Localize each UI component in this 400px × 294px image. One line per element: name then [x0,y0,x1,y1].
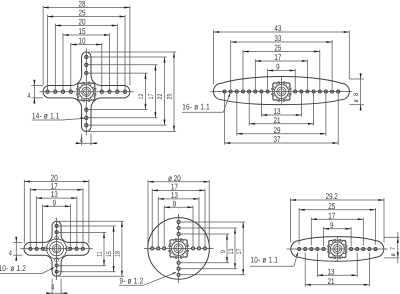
svg-text:22: 22 [157,93,164,99]
svg-text:37: 37 [273,134,280,144]
svg-text:20: 20 [78,17,85,27]
svg-text:16- ø 1.1: 16- ø 1.1 [182,101,210,111]
svg-text:21: 21 [327,276,334,286]
svg-text:17: 17 [148,93,155,99]
svg-text:17: 17 [274,52,281,62]
svg-text:13: 13 [327,266,334,276]
svg-text:21: 21 [273,115,280,125]
svg-text:ø 8: ø 8 [353,92,360,103]
svg-text:9: 9 [173,198,177,208]
svg-text:43: 43 [274,23,281,33]
svg-text:4: 4 [80,136,83,145]
svg-text:33: 33 [274,33,281,43]
svg-text:17: 17 [236,248,243,254]
svg-text:10: 10 [78,36,85,46]
svg-text:25: 25 [167,93,174,99]
svg-text:4: 4 [27,91,30,100]
svg-text:15: 15 [106,251,113,257]
svg-text:9- ø 1.2: 9- ø 1.2 [120,275,144,285]
svg-text:14- ø 1.1: 14- ø 1.1 [32,110,60,120]
svg-text:25: 25 [328,201,335,211]
svg-text:10- ø 1.1: 10- ø 1.1 [251,254,279,264]
svg-text:4: 4 [9,249,12,258]
svg-text:25: 25 [274,43,281,53]
svg-text:18: 18 [115,251,122,257]
svg-text:9: 9 [276,62,280,72]
svg-text:9: 9 [220,250,227,253]
svg-text:9: 9 [52,197,56,207]
svg-text:ø 7: ø 7 [390,246,397,257]
svg-text:9: 9 [330,220,334,230]
svg-text:11: 11 [97,251,104,257]
svg-text:13: 13 [228,248,235,254]
svg-text:10- ø 1.2: 10- ø 1.2 [0,263,26,273]
svg-text:29.2: 29.2 [326,191,339,201]
svg-text:17: 17 [328,210,335,220]
svg-text:12: 12 [138,93,145,99]
svg-text:15: 15 [78,26,85,36]
svg-text:4: 4 [51,282,54,291]
